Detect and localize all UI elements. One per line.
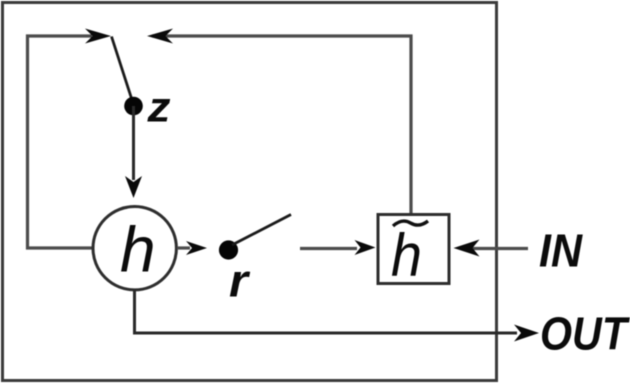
arrowhead into unit htilde left side (right-pointing) (355, 240, 376, 255)
cell boundary frame (3, 3, 497, 381)
svg-text:r: r (229, 255, 250, 307)
svg-text:h: h (391, 222, 422, 289)
wire: switch r output to unit htilde (300, 247, 357, 250)
svg-text:z: z (146, 84, 171, 132)
svg-text:h: h (120, 214, 156, 286)
unit h circle (93, 207, 176, 290)
wire: feedback from unit htilde top up and along top to switch z (152, 36, 411, 214)
arrowhead OUT (right-pointing) (514, 325, 539, 342)
tilde accent over h (393, 221, 428, 226)
arrowhead into switch z pivot (right-pointing) (85, 29, 111, 44)
svg-text:OUT: OUT (540, 308, 630, 360)
svg-text:IN: IN (539, 225, 583, 277)
wire: feedback from unit h left side up and along top to switch z (28, 36, 94, 248)
switch z lever (112, 37, 134, 104)
arrowhead toward switch z pivot (left-pointing) (147, 29, 173, 44)
switch z contact dot (124, 97, 143, 116)
switch r contact dot (219, 240, 238, 259)
switch r lever (232, 215, 291, 246)
arrowhead into switch r dot (right-pointing) (186, 241, 207, 255)
wire: IN to unit htilde (471, 247, 528, 250)
wire: unit h right side to switch r (177, 246, 190, 249)
wire: from switch z down into unit h (132, 106, 135, 180)
arrowhead into unit h top (down-pointing) (125, 176, 142, 198)
unit htilde box (378, 215, 449, 284)
wire: unit h bottom to OUT (135, 290, 518, 333)
arrowhead into unit htilde right side (left-pointing) (454, 240, 480, 257)
